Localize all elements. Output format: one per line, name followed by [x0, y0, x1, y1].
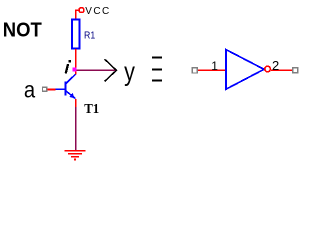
svg-text:y: y [124, 57, 135, 87]
svg-text:a: a [24, 76, 36, 103]
svg-text:VCC: VCC [85, 6, 110, 17]
svg-text:1: 1 [211, 59, 218, 73]
svg-text:R1: R1 [84, 30, 96, 41]
svg-text:2: 2 [272, 58, 279, 73]
svg-text:T1: T1 [84, 102, 99, 117]
svg-text:NOT: NOT [3, 18, 42, 41]
